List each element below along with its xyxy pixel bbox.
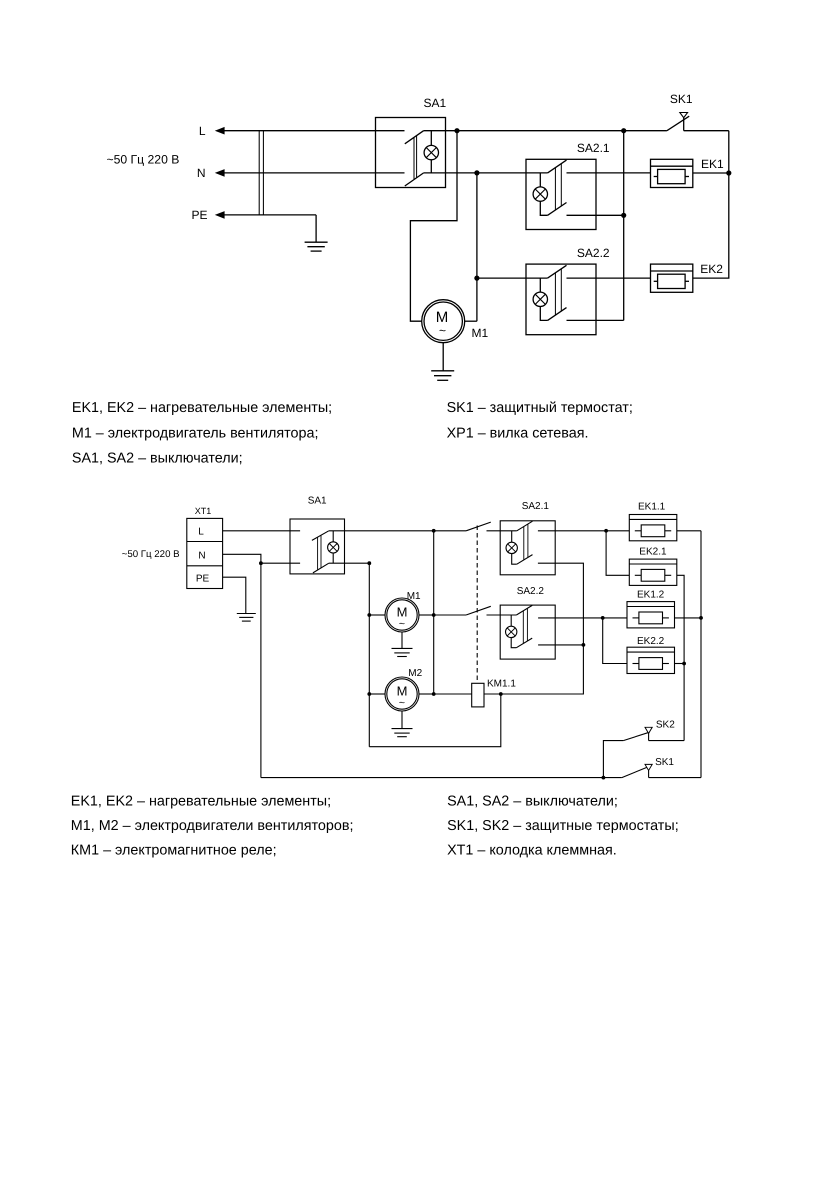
wire M1 line to KM contact [434, 614, 466, 616]
lamp in SA2.2: top lead [539, 278, 541, 292]
lamp in SA1: top lead [430, 131, 432, 146]
svg-text:SA1: SA1 [308, 496, 327, 507]
motor M2 outer circle [385, 677, 419, 711]
wire N drop to SA2.2 and M1 [476, 173, 478, 321]
heater EK1.1 ticks [635, 530, 671, 532]
junction dot SK2 tie [602, 776, 606, 780]
heater EK2.1 ticks [635, 574, 671, 576]
svg-text:SA2.2: SA2.2 [517, 586, 545, 597]
svg-text:SA2.1: SA2.1 [522, 501, 550, 512]
junction dot EK1 right [726, 170, 731, 175]
BOTTOM_LEGEND [71, 793, 679, 858]
wire PE2 from XT1 [223, 577, 246, 613]
lamp in SA1: bulb circle [424, 145, 438, 159]
wire KM coil left lead [434, 693, 472, 695]
thermostat SK1 blade bottom [622, 767, 648, 778]
heater EK2.1 top band [629, 563, 677, 565]
mechanical link KM1 dashed [476, 526, 478, 684]
heater EK2 top band [651, 270, 693, 272]
svg-text:L: L [199, 124, 206, 138]
switch SA1 bottom blade N [313, 563, 329, 573]
switch SA1 linkage [414, 136, 417, 180]
wire M1 line into SA2.2 [487, 614, 517, 616]
thermostat SK2 contact lead [648, 733, 650, 740]
svg-text:~: ~ [439, 324, 446, 338]
wire SK2 right [649, 740, 685, 742]
wire M1 right lead [419, 614, 434, 616]
thermostat SK1 triangle [680, 113, 688, 118]
contact KM1 blade on M1 line [466, 606, 491, 615]
heater EK1.2 ticks [633, 617, 669, 619]
switch SA2.2 blade top [548, 265, 567, 278]
TOP_SCHEMATIC [107, 92, 732, 380]
wire M2 left lead [369, 693, 385, 695]
svg-text:KM1.1: KM1.1 [487, 679, 516, 690]
svg-text:EK1, EK2 – нагревательные элем: EK1, EK2 – нагревательные элементы; [71, 793, 331, 809]
wire SA2.2 input [477, 277, 548, 279]
heater EK1 ticks [654, 176, 689, 178]
junction dot SA2.2 out bottom tie [582, 643, 586, 647]
wire EK1.1 right lead [677, 530, 701, 532]
svg-text:M2: M2 [408, 668, 422, 679]
wire EK1 right lead [693, 172, 729, 174]
switch SA1 bottom box [290, 519, 345, 574]
junction dot SA2.2 input [474, 276, 479, 281]
junction dot KM node [499, 692, 503, 696]
lamp in SA1 bottom: bulb [328, 542, 339, 553]
switch SA2.2 bottom blade top [516, 605, 532, 615]
svg-text:SA1: SA1 [423, 96, 446, 110]
wire M1 right lead [465, 320, 477, 322]
svg-text:N: N [198, 550, 205, 561]
switch SA2.2 linkage [555, 269, 561, 315]
relay coil KM1.1 box [472, 683, 484, 707]
terminal block XT1 dividers [187, 542, 223, 566]
junction dot EK1.2 tie [699, 616, 703, 620]
motor M1 inner circle [424, 302, 462, 340]
switch SA1 blade pole L [405, 131, 424, 144]
wire SA2.2 bottom output bottom [538, 644, 583, 646]
motor M1 bottom outer circle [385, 598, 419, 632]
heater EK1 outer box [651, 159, 693, 187]
wire SA2.1 output bottom [567, 214, 624, 216]
svg-text:~: ~ [399, 618, 405, 630]
wire SK1 to right corner [684, 130, 729, 132]
wire SA2 outputs vertical [623, 131, 625, 321]
heater EK2.1 inner box [641, 569, 665, 581]
thermostat SK1 contact lead [683, 118, 685, 131]
switch SA2.1 bottom blade top [517, 521, 533, 531]
heater EK2.2 top band [627, 651, 675, 653]
plug XP1 arrow N [215, 169, 225, 177]
wire L from plug XP1 to SA1 contact [223, 130, 405, 132]
lamp in SA2.2 bottom: cross [507, 628, 515, 636]
lamp in SA2.2: bulb circle [533, 292, 547, 306]
wire L2 from XT1 to SA1 [223, 530, 301, 532]
switch SA2.2 bottom blade bottom [516, 638, 532, 648]
junction dot N2 [259, 561, 263, 565]
svg-text:EK2.2: EK2.2 [637, 636, 665, 647]
svg-text:EK2.1: EK2.1 [639, 546, 667, 557]
svg-text:PE: PE [191, 208, 207, 222]
junction dot M1 right [432, 613, 436, 617]
heater EK2.2 inner box [639, 658, 663, 670]
lamp in SA1 bottom: bottom lead [332, 553, 334, 563]
svg-text:L: L [198, 526, 204, 537]
lamp in SA2.2 bottom: top lead [510, 615, 512, 626]
svg-text:PE: PE [196, 574, 210, 585]
svg-text:EK1: EK1 [701, 157, 724, 171]
lamp in SA1 bottom: top lead [332, 531, 334, 542]
svg-text:SA1, SA2 – выключатели;: SA1, SA2 – выключатели; [447, 793, 618, 809]
wire EK2.1 right lead [677, 575, 684, 740]
svg-text:SA2.1: SA2.1 [577, 141, 610, 155]
wire EK1.2 right lead [675, 617, 702, 619]
junction dot M1 left [367, 613, 371, 617]
heater EK2.1 outer box [629, 559, 677, 585]
svg-text:~50 Гц 220 В: ~50 Гц 220 В [107, 152, 180, 166]
junction dot EK feed lower [601, 616, 605, 620]
wire SA2.2 output bottom [567, 319, 624, 321]
wire bottom bus N to SK1 [261, 777, 622, 779]
svg-text:SK1: SK1 [655, 757, 674, 768]
heater EK2 ticks [654, 280, 689, 282]
lamp in SA2.1 bottom: bottom lead [512, 554, 517, 565]
switch SA2.1 box [526, 159, 596, 229]
heater EK2.2 ticks [633, 663, 669, 665]
switch SA2.1 blade bottom [548, 203, 567, 216]
svg-text:EK1, EK2 – нагревательные элем: EK1, EK2 – нагревательные элементы; [72, 400, 332, 416]
junction dot N2 out [367, 561, 371, 565]
switch SA2.2 blade bottom [548, 308, 567, 321]
wire N2 drop to bottom bus [260, 563, 262, 777]
wire PE drop to ground [315, 215, 317, 242]
junction dot N / SA2.2 feed drop [474, 170, 479, 175]
svg-text:~50 Гц 220 В: ~50 Гц 220 В [122, 549, 180, 560]
switch SA2.2 bottom linkage [523, 608, 527, 643]
heater EK1 inner box [658, 169, 686, 183]
wire SK1 right [649, 777, 701, 779]
terminal block XT1 box [187, 518, 223, 588]
wire M1 left lead [369, 614, 385, 616]
wire EK2.1 feed vertical [606, 531, 629, 576]
svg-text:XT1 – колодка клеммная.: XT1 – колодка клеммная. [447, 842, 617, 858]
ground symbol M1 bottom [392, 648, 413, 656]
ground symbol PE [305, 242, 328, 251]
junction dot EK2.2 tie [682, 662, 686, 666]
lamp in SA2.2 bottom: bottom lead [511, 638, 516, 648]
switch SA2.1 bottom blade bottom [517, 555, 533, 565]
lamp in SA2.1: cross [535, 189, 545, 199]
wire SA2.1 bottom output top to EK1.1 [538, 530, 629, 532]
wire SA2.2 bottom output top to EK1.2 [538, 617, 627, 619]
thermostat SK2 left wire [603, 741, 623, 778]
TOP_LEGEND [72, 400, 633, 466]
junction dot M2 right [432, 692, 436, 696]
lamp in SA2.1: bulb circle [533, 187, 547, 201]
junction dot M2 left [367, 692, 371, 696]
svg-text:M1: M1 [407, 591, 421, 602]
lamp in SA1: bottom lead [430, 160, 432, 173]
wire EK2.2 feed vertical [603, 618, 627, 664]
lamp in SA2.2 bottom: bulb [506, 626, 517, 637]
lamp in SA2.1: top lead [539, 173, 541, 187]
lamp in SA2.2: bottom lead [540, 307, 547, 321]
heater EK1.2 outer box [627, 602, 675, 628]
svg-text:SK1 – защитный термостат;: SK1 – защитный термостат; [447, 400, 633, 416]
wire PE horizontal [223, 214, 316, 216]
lamp in SA1: cross [426, 148, 436, 158]
switch SA1 box [376, 118, 446, 188]
svg-text:КМ1 – электромагнитное реле;: КМ1 – электромагнитное реле; [71, 842, 277, 858]
contact KM1 blade on L2 [466, 522, 491, 531]
wire KM coil right lead [484, 693, 501, 695]
wire EK1 group vertical to SK1 [700, 531, 702, 778]
switch SA2.2 bottom box [500, 605, 555, 659]
heater EK1.1 inner box [641, 525, 665, 537]
switch SA1 blade pole N [405, 173, 424, 186]
junction dot L2 drop [432, 529, 436, 533]
switch SA2.1 bottom box [500, 521, 555, 575]
svg-text:SA2.2: SA2.2 [577, 246, 610, 260]
wire N2 left vertical [368, 563, 370, 747]
wire M2 to ground [401, 711, 403, 729]
svg-text:M1: M1 [472, 326, 489, 340]
switch SA2.2 box [526, 264, 596, 335]
switch SA2.1 bottom linkage [524, 524, 528, 560]
wire SA2.1 output top to EK1 [567, 172, 651, 174]
ground symbol M2 [392, 729, 413, 737]
wire N2 from XT1 with jog [223, 554, 301, 563]
lamp in SA1 bottom: cross [329, 544, 337, 552]
wire L2 vertical to motors [433, 531, 435, 694]
heater EK2 outer box [651, 264, 693, 292]
thermostat SK2 triangle [645, 727, 652, 733]
heater EK1.1 top band [629, 518, 677, 520]
motor M2 inner circle [387, 679, 417, 709]
switch SA1 bottom blade L [312, 531, 329, 541]
svg-text:М1, М2 – электродвигатели вент: М1, М2 – электродвигатели вентиляторов; [71, 818, 354, 834]
wire right vertical EK1/EK2 [693, 131, 729, 278]
svg-text:~: ~ [399, 697, 405, 709]
junction dot EK feed top [604, 529, 608, 533]
lamp in SA2.1: bottom lead [540, 201, 547, 215]
motor M1 bottom inner circle [387, 600, 417, 630]
lamp in SA2.1 bottom: bulb [506, 542, 517, 553]
heater EK1.2 inner box [639, 612, 663, 624]
thermostat SK1 triangle bottom [645, 764, 652, 770]
junction dot L / M1 feed [454, 128, 459, 133]
heater EK2 inner box [658, 274, 686, 288]
svg-text:SK2: SK2 [656, 720, 675, 731]
plug XP1 arrow PE [215, 211, 225, 219]
wire N from plug XP1 to SA1 contact [223, 172, 405, 174]
heater EK2.2 outer box [627, 647, 675, 673]
wire M1 left path [410, 131, 457, 322]
wire N2 bottom jog to KM node [369, 694, 501, 747]
svg-text:XP1 – вилка сетевая.: XP1 – вилка сетевая. [447, 425, 589, 441]
svg-text:М1 – электродвигатель вентилят: М1 – электродвигатель вентилятора; [72, 425, 319, 441]
ground symbol PE2 [237, 614, 256, 622]
svg-text:EK1.1: EK1.1 [638, 502, 666, 513]
thermostat SK2 blade [623, 732, 649, 740]
wire N from SA1 to SA2.1 [424, 172, 548, 174]
svg-text:XT1: XT1 [195, 506, 212, 516]
switch SA2.1 linkage [555, 164, 561, 210]
wire M2 right lead [419, 693, 434, 695]
motor M1 outer circle [422, 300, 465, 343]
svg-text:N: N [197, 166, 206, 180]
junction dot L / SA2 drop [621, 128, 626, 133]
wire EK2.2 right lead [675, 663, 685, 665]
wire N2 out of SA1 [329, 562, 370, 564]
BOTTOM_SCHEMATIC [122, 496, 703, 780]
junction dot SA2.1 out [621, 213, 626, 218]
svg-text:SK1: SK1 [670, 92, 693, 106]
svg-text:SA1, SA2 – выключатели;: SA1, SA2 – выключатели; [72, 450, 243, 466]
lamp in SA2.2: cross [535, 294, 545, 304]
ground symbol M1 [431, 371, 454, 381]
thermostat SK1 blade [667, 116, 689, 131]
wire L2 from SA1 to KM contact [329, 530, 466, 532]
switch SA1 bottom linkage [318, 535, 321, 570]
cord marking double line [259, 131, 263, 215]
lamp in SA2.1 bottom: cross [508, 544, 516, 552]
wire M1 to ground [442, 343, 444, 371]
wire L from SA1 to SK1 [424, 130, 667, 132]
wire M1 to ground [401, 632, 403, 648]
heater EK1.1 outer box [629, 515, 677, 541]
switch SA2.1 blade top [548, 160, 567, 173]
svg-text:EK1.2: EK1.2 [637, 589, 665, 600]
svg-text:EK2: EK2 [700, 262, 723, 276]
thermostat SK1 contact lead bottom [648, 771, 650, 778]
wire L2 into SA2.1 [487, 530, 517, 532]
wire SA2.1 bottom output bottom [501, 563, 584, 694]
plug XP1 arrow L [215, 127, 225, 135]
svg-text:SK1, SK2 – защитные термостаты: SK1, SK2 – защитные термостаты; [447, 818, 679, 834]
wire SA2.2 output top to EK2 [567, 277, 651, 279]
heater EK1 top band [651, 165, 693, 167]
lamp in SA2.1 bottom: top lead [511, 531, 513, 542]
heater EK1.2 top band [627, 606, 675, 608]
